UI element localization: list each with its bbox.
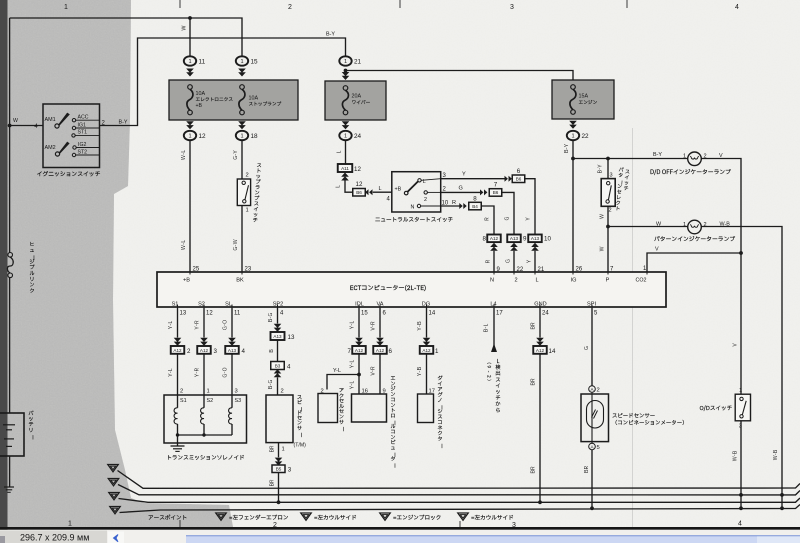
- connector A13 pin10: [528, 235, 542, 243]
- svg-text:2: 2: [281, 389, 284, 395]
- svg-text:=左フェンダーエプロン: =左フェンダーエプロン: [229, 515, 289, 523]
- accel sensor box: [318, 394, 338, 423]
- arrow into B4 r-row: [459, 203, 466, 209]
- svg-text:B-L: B-L: [483, 323, 491, 332]
- speed sensor combination box: [581, 394, 609, 442]
- wire left vertical from top: [9, 18, 11, 253]
- ECT bottom pin tick 24: [539, 305, 541, 310]
- ECT top pin tick 21: [534, 270, 536, 275]
- wire W pattern switch to ECT: [607, 206, 609, 272]
- connector oval 18: [236, 131, 248, 140]
- connector B6 pin 6: [512, 175, 525, 183]
- connector oval 21: [339, 56, 351, 65]
- svg-text:1: 1: [240, 134, 243, 140]
- svg-text:BR: BR: [530, 378, 538, 386]
- svg-text:IG1: IG1: [78, 122, 86, 128]
- neutral lever: [408, 182, 418, 192]
- svg-text:ワイパー: ワイパー: [352, 100, 371, 107]
- wire BR to ground bus: [539, 354, 541, 503]
- page bottom border: [0, 527, 800, 530]
- svg-text:B6: B6: [516, 177, 522, 182]
- svg-text:W: W: [13, 118, 18, 124]
- connector A13 pin9: [507, 235, 521, 243]
- svg-text:VA: VA: [376, 302, 383, 308]
- svg-text:12: 12: [206, 311, 213, 317]
- svg-text:A12: A12: [536, 348, 545, 353]
- neutral start switch box: [392, 172, 441, 212]
- wire G-W to ECT: [241, 206, 243, 273]
- wire W drop to fuse 11: [189, 18, 191, 56]
- svg-text:W: W: [599, 246, 607, 251]
- wire G-Y to stop lamp switch: [241, 140, 243, 179]
- arrow out fuse wiper: [342, 121, 350, 129]
- svg-text:A11: A11: [341, 166, 349, 171]
- svg-text:Y-R: Y-R: [194, 320, 202, 330]
- pattern switch contact top: [607, 182, 610, 185]
- neutral contact N: [417, 204, 420, 207]
- svg-text:G: G: [504, 216, 512, 220]
- fuse box engine: [552, 80, 614, 119]
- svg-text:2: 2: [180, 389, 183, 395]
- wire BR from GND: [539, 308, 541, 338]
- pattern indicator lamp: [688, 220, 702, 234]
- svg-text:BR: BR: [583, 465, 591, 473]
- svg-text:BK: BK: [236, 278, 244, 284]
- ECT top pin tick 1: [646, 270, 648, 275]
- svg-text:296.7 x 209.9 мм: 296.7 x 209.9 мм: [20, 533, 89, 543]
- svg-text:11: 11: [199, 58, 206, 65]
- svg-text:S3: S3: [235, 398, 242, 404]
- solenoid ground lead: [177, 435, 179, 446]
- svg-text:エンジン: エンジン: [579, 99, 598, 107]
- node BR spi at bus4: [590, 506, 594, 510]
- svg-text:S1: S1: [180, 398, 187, 404]
- wire G-O from ECT 11: [231, 308, 233, 338]
- svg-text:6: 6: [389, 348, 393, 355]
- ECT bottom pin tick 6: [379, 305, 381, 310]
- svg-text:13: 13: [180, 311, 187, 317]
- svg-text:ー: ー: [437, 443, 445, 448]
- svg-text:Y-L: Y-L: [167, 321, 175, 330]
- svg-text:チ: チ: [623, 185, 629, 193]
- connector oval 24: [339, 131, 351, 140]
- svg-text:17: 17: [496, 311, 503, 317]
- connector A12 pin 14: [533, 346, 547, 354]
- node od at bus2: [739, 493, 743, 497]
- ignition AM1 contact: [55, 124, 59, 128]
- wire W top horizontal: [10, 18, 242, 56]
- svg-text:=エンジンブロック: =エンジンブロック: [393, 515, 441, 523]
- svg-text:SP2: SP2: [273, 302, 284, 308]
- wire R pin10: [441, 205, 460, 207]
- svg-text:11: 11: [234, 311, 241, 317]
- svg-text:3: 3: [610, 173, 613, 179]
- ground point triangle 4: [110, 507, 121, 514]
- svg-text:B-Y: B-Y: [326, 32, 335, 38]
- battery plates: [3, 424, 15, 426]
- wire R to pin9: [481, 206, 494, 235]
- svg-text:G: G: [583, 346, 591, 350]
- arrow into A12 idl: [355, 338, 363, 346]
- svg-text:8: 8: [483, 236, 487, 243]
- svg-text:ク: ク: [29, 287, 34, 295]
- wire V from CO2: [647, 253, 741, 272]
- svg-text:1: 1: [240, 59, 243, 65]
- svg-text:9: 9: [486, 365, 493, 368]
- node BR gnd at bus3: [538, 500, 542, 504]
- svg-text:1: 1: [683, 154, 686, 160]
- svg-text:A13: A13: [228, 348, 237, 353]
- arrow into B5: [275, 458, 283, 466]
- svg-text:20A: 20A: [352, 94, 362, 100]
- svg-text:V: V: [719, 153, 723, 159]
- svg-text:W-B: W-B: [772, 449, 780, 460]
- wire Y-L idl mid: [358, 354, 360, 394]
- ground point triangle 3: [109, 493, 120, 500]
- wire Y-B to diagnosis: [426, 354, 428, 394]
- arrow into A12 dg: [423, 338, 431, 346]
- wire W-B from od switch: [740, 421, 742, 509]
- svg-text:W: W: [599, 214, 607, 219]
- svg-text:ストップランプ: ストップランプ: [249, 101, 282, 109]
- svg-text:1: 1: [739, 388, 742, 394]
- svg-text:1: 1: [344, 59, 347, 65]
- svg-text:B3: B3: [275, 364, 281, 369]
- arrow out fuse stop lamp: [238, 121, 246, 129]
- fuse 20A wiper symbol: [343, 86, 348, 91]
- svg-text:B-G: B-G: [267, 313, 275, 323]
- svg-text:ECTコンピューター(2L-TE): ECTコンピューター(2L-TE): [350, 283, 426, 293]
- svg-text:Y-R: Y-R: [194, 368, 202, 378]
- svg-text:V: V: [655, 247, 659, 253]
- wire Y-L to solenoid: [177, 354, 179, 395]
- svg-text:W-L: W-L: [180, 150, 188, 160]
- svg-text:（: （: [486, 360, 493, 365]
- arrow into B6 left: [365, 189, 372, 195]
- ECT bottom pin tick 11: [231, 305, 233, 310]
- svg-text:2: 2: [597, 388, 600, 394]
- svg-text:22: 22: [582, 133, 590, 140]
- svg-text:Y-L: Y-L: [349, 381, 357, 390]
- wire B-Y to lamp: [573, 158, 688, 160]
- wire B-L from L4: [493, 308, 495, 351]
- connector oval 15: [236, 56, 248, 65]
- svg-text:B-Y: B-Y: [119, 120, 128, 126]
- node od at bus4: [739, 506, 743, 510]
- arrow into B3 from below: [274, 369, 282, 377]
- svg-text:ー: ー: [28, 435, 36, 440]
- svg-text:7: 7: [348, 348, 352, 355]
- status bar background: [0, 530, 800, 543]
- arrow into A11: [341, 173, 349, 181]
- diagnosis connector box: [418, 394, 434, 423]
- connector oval 11: [184, 56, 196, 65]
- wire B-Y engine fuse down: [572, 141, 574, 272]
- connector B6 pin 7: [489, 189, 502, 197]
- wire Y to pin21: [525, 179, 535, 235]
- transmission solenoid box: [164, 395, 247, 443]
- svg-text:ー: ー: [339, 426, 347, 431]
- svg-text:=左カウルサイド: =左カウルサイド: [471, 515, 514, 523]
- svg-text:A13: A13: [510, 236, 519, 241]
- stop lamp switch box: [237, 179, 250, 206]
- svg-text:14: 14: [549, 348, 556, 355]
- solenoid coil S3: [231, 395, 233, 408]
- wire W to ignition switch: [10, 125, 43, 127]
- legend triangle cowl side 1: [301, 513, 312, 520]
- ECT top pin tick 7: [607, 270, 609, 275]
- svg-text:AM1: AM1: [45, 117, 56, 123]
- wire BR from TM sensor: [278, 443, 280, 458]
- connector B5 pin 3: [272, 465, 285, 473]
- wire W to pattern lamp: [608, 226, 688, 228]
- arrow into A12 gnd: [536, 338, 544, 346]
- svg-text:3: 3: [510, 4, 514, 11]
- svg-text:ノ: ノ: [437, 397, 442, 405]
- arrow into B6 y-row: [505, 176, 512, 182]
- arrow into A12 va: [376, 338, 384, 346]
- wire Y-L to accel sensor: [327, 375, 359, 390]
- connector oval 12: [184, 131, 196, 140]
- ignition contact ST2: [72, 153, 75, 156]
- svg-text:チ: チ: [252, 217, 258, 225]
- arrow into A-box A12 s2: [200, 338, 208, 346]
- svg-text:2: 2: [187, 348, 191, 355]
- svg-text:A13: A13: [273, 334, 282, 339]
- svg-text:Y: Y: [462, 172, 466, 178]
- svg-text:ニュートラルスタートスイッチ: ニュートラルスタートスイッチ: [375, 217, 454, 225]
- svg-text:W: W: [181, 25, 189, 31]
- svg-text:V-R: V-R: [370, 366, 378, 376]
- svg-text:SPI: SPI: [587, 302, 596, 308]
- connector B3 pin 4: [271, 362, 285, 370]
- svg-text:S1: S1: [172, 302, 179, 308]
- svg-text:イグニッションスイッチ: イグニッションスイッチ: [37, 170, 101, 179]
- svg-text:ら: ら: [495, 407, 500, 415]
- svg-text:IG: IG: [571, 278, 577, 284]
- arrow into fuse 20A wiper: [342, 72, 350, 80]
- svg-text:1: 1: [435, 348, 439, 355]
- svg-text:15: 15: [361, 311, 368, 317]
- wire G to pin22: [502, 192, 514, 234]
- svg-text:P: P: [606, 278, 610, 284]
- wire G pin2: [441, 191, 481, 193]
- solenoid coil S1: [177, 395, 179, 408]
- stop lamp contact bottom: [243, 200, 246, 203]
- status bar button: [108, 532, 124, 543]
- wire left vertical lower: [9, 278, 11, 414]
- wire bus 3: [119, 498, 800, 502]
- svg-text:リ: リ: [28, 427, 33, 435]
- svg-text:ST2: ST2: [78, 149, 88, 155]
- svg-text:4: 4: [738, 521, 742, 528]
- svg-text:1: 1: [68, 521, 72, 528]
- ECT bottom pin tick 17: [493, 305, 495, 310]
- stop lamp switch caption: [252, 162, 262, 225]
- node junction pattern feed: [606, 157, 610, 161]
- ground transmission solenoid: [171, 445, 185, 447]
- svg-text:-: -: [486, 371, 493, 373]
- fuse box electronics and stop lamp: [169, 80, 298, 120]
- connector A13 pin 4 solenoid: [225, 346, 239, 354]
- arrow into A13 sp2: [274, 324, 282, 332]
- svg-text:4: 4: [735, 4, 739, 11]
- svg-text:W-B: W-B: [720, 222, 731, 228]
- svg-text:10: 10: [544, 236, 551, 243]
- svg-text:Y-L: Y-L: [333, 368, 341, 374]
- svg-text:1: 1: [282, 447, 285, 453]
- connector oval 22: [567, 131, 579, 140]
- scanned page gray edge band: [0, 0, 233, 527]
- svg-text:1: 1: [207, 389, 210, 395]
- svg-text:3: 3: [214, 348, 218, 355]
- connector A12 pin 1: [420, 346, 434, 354]
- connector A11 pin 12: [338, 164, 353, 172]
- ECT bottom pin tick 14: [426, 305, 428, 310]
- ECT bottom pin tick 5: [591, 305, 593, 310]
- wire B to B3: [277, 340, 279, 362]
- wire bus 2: [118, 485, 800, 495]
- node Y-L branch: [357, 373, 361, 377]
- svg-text:GND: GND: [534, 302, 546, 308]
- svg-text:L: L: [336, 150, 344, 153]
- od switch box: [735, 394, 750, 421]
- ruler tick top b: [399, 0, 401, 8]
- ECT top pin tick 9: [493, 270, 495, 275]
- ECT top pin tick 25: [189, 270, 191, 275]
- arrow into A13 l-row: [531, 243, 539, 251]
- wire G-O to solenoid: [231, 354, 233, 395]
- wire W-L fuse to ECT: [189, 140, 191, 272]
- legend triangle cowl side 2: [458, 513, 469, 520]
- svg-text:CO2: CO2: [636, 278, 647, 284]
- ignition contact ACC: [72, 119, 75, 122]
- wire Y-L from ECT 13: [177, 308, 179, 338]
- solenoid common wire: [178, 434, 233, 436]
- svg-text:R: R: [452, 200, 456, 206]
- dark page left edge strip: [0, 0, 8, 530]
- svg-text:A12: A12: [173, 348, 182, 353]
- svg-text:）: ）: [486, 379, 493, 383]
- svg-text:B-Y: B-Y: [653, 152, 662, 158]
- svg-text:12: 12: [199, 133, 207, 140]
- connector B6 pin 12: [353, 189, 366, 197]
- svg-text:3: 3: [235, 389, 238, 395]
- node junction V: [739, 251, 743, 255]
- wire W-B from pattern lamp: [701, 227, 782, 509]
- ruler tick top c: [626, 0, 628, 8]
- wire Y-R from ECT 12: [203, 308, 205, 338]
- wire branch to engine fuse: [346, 71, 574, 81]
- svg-text:A13: A13: [531, 236, 540, 241]
- neutral contact 2: [424, 191, 427, 194]
- ruler tick top a: [179, 0, 181, 8]
- wire G from SPI: [591, 308, 593, 386]
- svg-text:5: 5: [597, 445, 600, 451]
- node solenoid S1 join: [176, 433, 179, 436]
- svg-text:Y-B: Y-B: [416, 367, 424, 377]
- svg-text:R: R: [485, 259, 493, 263]
- svg-text:BR: BR: [269, 445, 277, 453]
- svg-text:N: N: [411, 205, 415, 211]
- fuse 10A stop lamp symbol: [240, 85, 245, 90]
- wire Y-R to solenoid: [203, 354, 205, 395]
- arrow into A-box A12 s1: [174, 338, 182, 346]
- svg-text:A12: A12: [355, 348, 364, 353]
- arrow into fuse 10A electronics: [186, 69, 194, 77]
- svg-text:2: 2: [486, 375, 493, 378]
- svg-text:1: 1: [64, 4, 68, 11]
- svg-text:S2: S2: [198, 302, 205, 308]
- svg-text:G-Y: G-Y: [232, 150, 240, 160]
- svg-text:SL: SL: [225, 302, 232, 308]
- svg-text:G: G: [459, 186, 463, 192]
- svg-text:ュ: ュ: [29, 247, 34, 255]
- svg-text:Y-B: Y-B: [416, 321, 424, 331]
- svg-text:（コンビネーションメーター）: （コンビネーションメーター）: [612, 420, 687, 428]
- svg-text:2: 2: [609, 208, 612, 214]
- svg-text:タ: タ: [437, 436, 442, 444]
- status bar gray tile: [0, 531, 107, 543]
- svg-text:Y-L: Y-L: [167, 368, 175, 377]
- scrollbar track: [186, 535, 800, 543]
- svg-text:15A: 15A: [579, 94, 589, 100]
- ECT bottom pin tick 13: [177, 305, 179, 310]
- ignition AM1 lever: [58, 113, 70, 126]
- wire bus 1: [118, 471, 800, 489]
- svg-text:2: 2: [288, 4, 292, 11]
- wire Y pin3: [441, 178, 505, 180]
- svg-text:W-B: W-B: [732, 450, 740, 461]
- connector A12 pin 7: [352, 346, 366, 354]
- svg-text:G-O: G-O: [222, 320, 230, 330]
- wire Y-L from IDL: [358, 308, 360, 338]
- ruler tick bottom b: [459, 521, 461, 528]
- svg-text:1: 1: [188, 59, 191, 65]
- wire V-R from VA: [379, 308, 381, 338]
- arrow into A12 n-row: [490, 243, 498, 251]
- node junction B-Y lamp: [571, 157, 575, 161]
- engine control computer box: [352, 394, 387, 422]
- ECT bottom pin tick 15: [358, 305, 360, 310]
- svg-text:V-R: V-R: [370, 321, 378, 331]
- ECT top pin tick 23: [241, 270, 243, 275]
- svg-text:L: L: [379, 186, 382, 192]
- svg-text:ト: ト: [615, 205, 621, 213]
- node junction ignition feed: [8, 124, 12, 128]
- node junction top W: [188, 16, 192, 20]
- od switch blade: [742, 401, 746, 415]
- wire L to B6: [345, 181, 353, 193]
- svg-text:B5: B5: [276, 467, 282, 472]
- connector A12 pin 6: [373, 346, 387, 354]
- svg-text:=左カウルサイド: =左カウルサイド: [314, 515, 357, 523]
- wire B-Y from ignition: [100, 38, 346, 126]
- svg-text:パターンインジケーターランプ: パターンインジケーターランプ: [654, 235, 735, 244]
- ignition AM2 contact: [55, 152, 59, 156]
- ground battery: [4, 486, 14, 488]
- svg-text:7: 7: [494, 182, 498, 189]
- svg-text:G-W: G-W: [232, 239, 240, 250]
- legend triangle fender: [216, 513, 227, 520]
- svg-text:2: 2: [424, 197, 427, 203]
- od switch contact bottom: [740, 415, 743, 418]
- fusible link symbol: [8, 253, 13, 258]
- arrow into A13 2-row: [510, 243, 518, 251]
- page fold crease line: [632, 128, 634, 527]
- svg-text:24: 24: [542, 311, 549, 317]
- svg-text:21: 21: [354, 58, 362, 65]
